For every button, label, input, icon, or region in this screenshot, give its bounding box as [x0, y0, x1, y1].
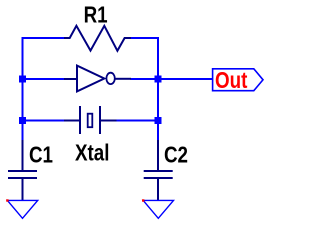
svg-text:C2: C2 — [164, 141, 188, 168]
node D junction (right, crystal row) — [155, 117, 162, 124]
op-amp U1 inverter — [64, 66, 131, 92]
svg-text:R1: R1 — [84, 1, 108, 28]
svg-text:Xtal: Xtal — [75, 140, 109, 167]
svg-text:Out: Out — [215, 67, 247, 94]
ground (right) — [142, 199, 174, 218]
wire: crystal right lead to node D — [116, 120, 158, 122]
node A junction (left, inverter row) — [19, 76, 26, 83]
wire: inverter input from node A — [23, 78, 65, 80]
wire: top-left horizontal segment — [22, 37, 65, 39]
wire: inverter output to node B — [131, 78, 159, 80]
svg-text:C1: C1 — [29, 141, 53, 168]
wire: left vertical rail — [22, 37, 24, 141]
capacitor C1 — [8, 140, 37, 200]
Out port flag — [213, 67, 263, 94]
wire: crystal left lead from node C — [23, 120, 65, 122]
wire: top-right horizontal segment — [131, 37, 159, 39]
node C junction (left, crystal row) — [19, 117, 26, 124]
capacitor C2 — [144, 140, 173, 200]
ground (left) — [6, 199, 38, 218]
node B junction (right, inverter row) — [155, 76, 162, 83]
resistor R1 — [64, 26, 131, 51]
crystal XT1 — [64, 106, 117, 134]
wire: right vertical rail — [157, 37, 159, 141]
wire: output to Out flag — [158, 78, 213, 80]
